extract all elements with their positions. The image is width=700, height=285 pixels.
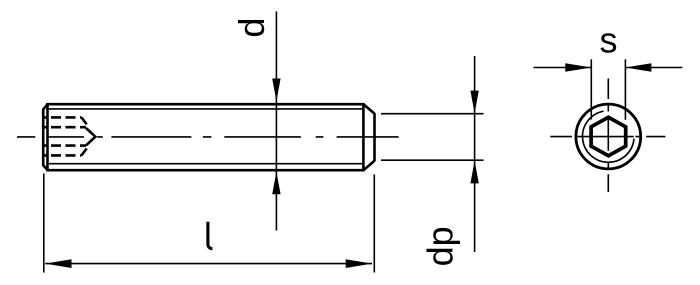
label l: [208, 222, 213, 249]
svg-text:dp: dp: [419, 226, 460, 266]
end view vertical centerline: [607, 79, 609, 193]
svg-text:s: s: [600, 20, 618, 61]
left chamfer diagonal top: [43, 104, 48, 109]
extension line s right: [624, 59, 626, 120]
right end face (flat point): [373, 113, 376, 161]
dimension line dp: [474, 56, 476, 252]
dimension line s right: [625, 67, 682, 69]
hex socket hidden line outer bottom: [42, 154, 82, 157]
left chamfer edge: [46, 103, 49, 171]
dimension line l: [45, 263, 372, 265]
extension line dp top: [381, 113, 484, 115]
left end face: [42, 109, 45, 166]
end view horizontal centerline: [550, 136, 665, 138]
arrowhead dp bottom: [470, 161, 478, 184]
socket cone dash bottom: [82, 149, 87, 156]
end view outer circle: [576, 104, 641, 169]
arrowhead d bottom: [272, 172, 280, 195]
arrowhead d top: [272, 79, 280, 102]
extension line dp bottom: [381, 159, 484, 161]
hex socket hidden line inner top: [42, 126, 86, 129]
dimension line d: [275, 12, 277, 231]
socket cone dash top: [82, 117, 87, 124]
hex socket hexagon: [591, 117, 626, 156]
screw body top edge: [46, 103, 363, 106]
right chamfer edge: [362, 103, 365, 171]
side view centerline: [17, 136, 399, 138]
hex socket hidden line outer top: [42, 116, 82, 119]
extension line s left: [590, 59, 592, 119]
hex socket hidden line inner bottom: [42, 144, 86, 147]
end view thread minor arc (3/4 circle): [583, 111, 634, 162]
right chamfer diagonal top: [363, 104, 374, 113]
dimension line s left: [534, 67, 592, 69]
svg-text:d: d: [231, 18, 272, 38]
right chamfer diagonal bottom: [363, 161, 374, 170]
arrowhead l left: [45, 259, 71, 268]
arrowhead s right: [625, 63, 651, 72]
socket cone tip chevron: [86, 128, 95, 145]
thread minor line bottom: [48, 163, 364, 165]
left chamfer diagonal bottom: [43, 165, 48, 170]
extension line l right: [373, 175, 375, 273]
arrowhead dp top: [470, 91, 478, 114]
extension line l left: [43, 174, 45, 273]
screw body bottom edge: [47, 169, 363, 172]
arrowhead l right: [346, 259, 372, 268]
thread minor line top: [48, 108, 364, 110]
arrowhead s left: [565, 63, 591, 72]
